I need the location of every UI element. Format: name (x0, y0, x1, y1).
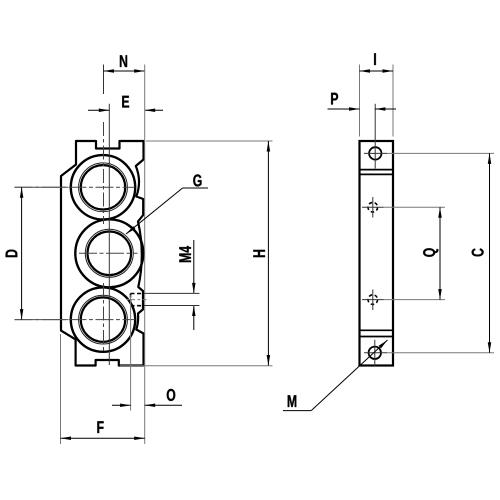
dimension Q (423, 207, 442, 299)
dimension D (6, 187, 68, 319)
centerline horizontal port 1 (15, 186, 136, 188)
dimension I (360, 53, 394, 136)
M4 hole centerline (127, 299, 147, 301)
dimension N (104, 55, 145, 94)
centerline vertical ports 1/3 (103, 122, 105, 351)
lower step lines (360, 329, 394, 331)
label G with leader (126, 174, 208, 234)
dimension F (61, 334, 145, 444)
centerline vertical port 2 (108, 104, 110, 365)
upper M4 cross hole (362, 197, 445, 218)
top mounting hole (364, 104, 494, 169)
label M with leader (283, 340, 388, 411)
side body outline (360, 141, 394, 366)
shared right extension line (144, 65, 146, 411)
dimension C (472, 153, 492, 352)
dimension O (112, 295, 182, 411)
centerline horizontal port 2 (79, 252, 138, 254)
port circle 2 (middle) (75, 219, 143, 287)
dimension H (120, 141, 273, 366)
dimension E (88, 96, 163, 112)
bottom mounting hole (364, 340, 494, 366)
dimension P (328, 93, 397, 111)
upper step lines (360, 169, 394, 171)
centerline horizontal port 3 (15, 319, 136, 321)
manifold body outline (61, 141, 144, 366)
port circle 3 (bottom) (71, 287, 135, 351)
port circle 1 (top) (71, 155, 135, 219)
hidden M4 side hole (131, 294, 144, 306)
lower M4 cross hole (362, 290, 445, 311)
dimension M4 (144, 240, 200, 330)
